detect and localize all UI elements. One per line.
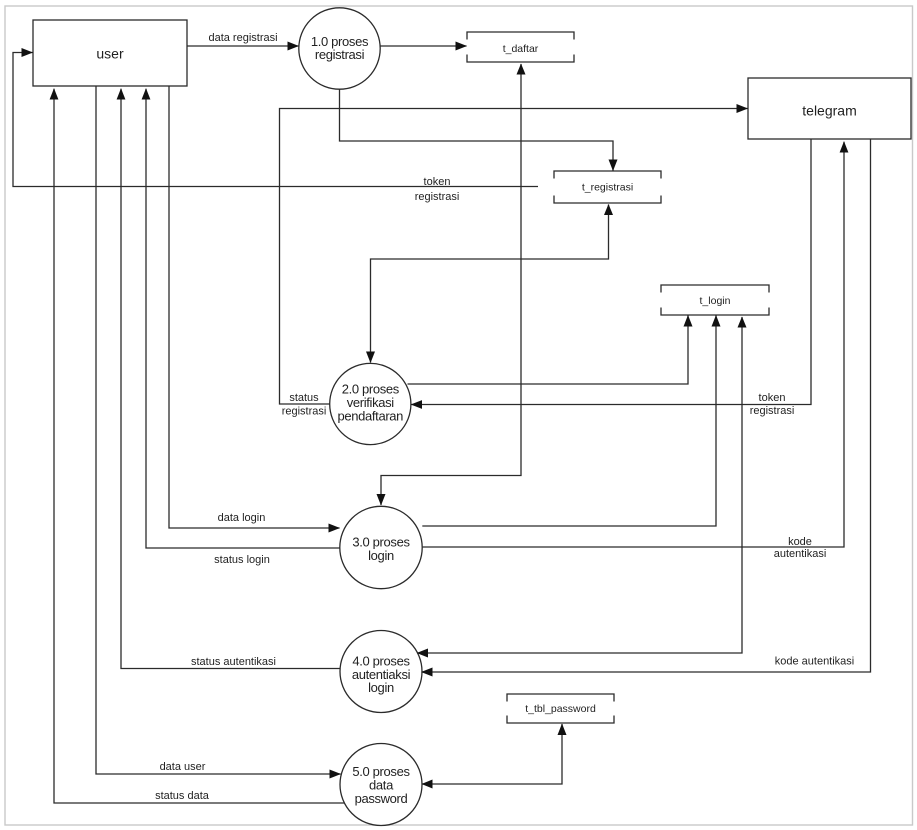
process 4.0 proses autentiaksi login: [340, 631, 422, 713]
svg-text:pendaftaran: pendaftaran: [338, 409, 404, 424]
svg-text:data login: data login: [218, 512, 266, 524]
svg-text:kode autentikasi: kode autentikasi: [775, 656, 855, 668]
svg-text:t_tbl_password: t_tbl_password: [525, 703, 596, 715]
svg-text:status autentikasi: status autentikasi: [191, 656, 276, 668]
svg-text:registrasi: registrasi: [415, 191, 460, 203]
flow 5.0 to t_tbl_password (two-headed): [422, 724, 563, 789]
flow 1.0 to t_registrasi: [340, 89, 614, 170]
svg-text:password: password: [355, 791, 408, 806]
svg-text:registrasi: registrasi: [282, 406, 327, 418]
svg-text:data registrasi: data registrasi: [208, 32, 277, 44]
flow data login (user to 3.0): [169, 86, 340, 528]
flow token registrasi (to user): [13, 53, 538, 204]
flow t_registrasi to 2.0 (two-headed): [371, 204, 614, 363]
flow data registrasi (user to 1.0): [187, 32, 298, 46]
svg-text:token: token: [424, 176, 451, 188]
svg-text:login: login: [368, 680, 394, 695]
data store t_tbl_password: [507, 694, 614, 723]
flow 1.0 to t_daftar: [380, 45, 466, 47]
svg-text:status data: status data: [155, 790, 210, 802]
svg-text:status login: status login: [214, 554, 270, 566]
svg-text:registrasi: registrasi: [315, 47, 365, 62]
process 1.0 proses registrasi: [299, 8, 380, 89]
external entity user: [33, 20, 187, 86]
process 5.0 proses data password: [340, 744, 422, 826]
flow 3.0 to t_login: [422, 316, 716, 527]
svg-text:token: token: [759, 392, 786, 404]
flow status registrasi (2.0 to telegram): [280, 109, 748, 418]
flow data user (user to 5.0): [96, 86, 341, 774]
external entity telegram: [748, 78, 911, 139]
svg-text:login: login: [368, 548, 394, 563]
data store t_login: [661, 285, 769, 315]
svg-text:t_daftar: t_daftar: [503, 43, 539, 55]
flow t_login to 4.0 (two-headed): [417, 317, 746, 654]
flow status data (5.0 to user): [54, 89, 345, 803]
flow kode autentikasi (3.0 to telegram): [423, 142, 844, 560]
svg-text:user: user: [96, 46, 124, 62]
data store t_daftar: [467, 32, 574, 62]
svg-text:kode: kode: [788, 536, 812, 548]
svg-text:t_registrasi: t_registrasi: [582, 182, 633, 194]
flow kode autentikasi (telegram to 4.0): [422, 139, 871, 672]
svg-text:t_login: t_login: [700, 295, 731, 307]
svg-text:registrasi: registrasi: [750, 405, 795, 417]
process 2.0 proses verifikasi pendaftaran: [330, 363, 411, 444]
svg-text:status: status: [289, 392, 319, 404]
flow token registrasi (telegram to 2.0): [411, 139, 811, 417]
process 3.0 proses login: [340, 506, 422, 588]
flow t_daftar to 3.0 (two-headed): [381, 64, 526, 506]
flow status login (3.0 to user): [146, 89, 340, 566]
svg-text:data user: data user: [160, 761, 206, 773]
svg-text:autentikasi: autentikasi: [774, 548, 827, 560]
flow status autentikasi (4.0 to user): [121, 89, 340, 669]
data store t_registrasi: [554, 171, 661, 203]
flow 2.0 to t_login: [408, 316, 689, 385]
svg-text:telegram: telegram: [802, 103, 856, 119]
